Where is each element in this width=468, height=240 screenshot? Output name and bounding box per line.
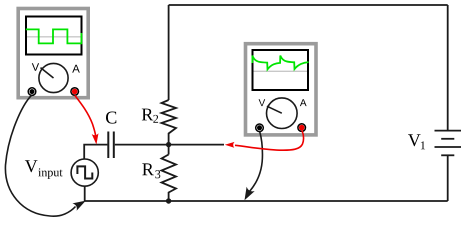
meter M1 label V (32, 63, 39, 71)
meter M2 screen (253, 50, 309, 90)
meter M1 dial (39, 63, 68, 92)
wire mid right (capacitor to node to probe point) (115, 144, 224, 146)
source Vinput circle (71, 159, 98, 186)
arrowhead M1 black (72, 201, 85, 211)
wire right battery top lead (447, 5, 449, 131)
meter M2 red jack (298, 124, 306, 132)
probe lead M2 black to bottom wire (250, 132, 263, 192)
arrowhead M2 black (245, 187, 255, 201)
capacitor C (107, 132, 109, 159)
wire right battery bottom lead (447, 155, 449, 201)
wire bottom from Vinput to battery (85, 200, 448, 202)
meter M1 screen (26, 17, 82, 55)
resistor R3 (162, 155, 177, 202)
meter M2 screen centerline (254, 70, 308, 72)
meter M2 frame (246, 44, 317, 135)
meter M1 black jack (28, 88, 36, 96)
meter M2 dial (267, 98, 298, 129)
wire Vinput bottom stub (84, 186, 86, 201)
resistor R2 (162, 100, 177, 145)
label R3 (142, 163, 154, 175)
label C (106, 112, 116, 124)
wire mid left (Vinput corner to capacitor) (84, 145, 107, 159)
label V1 (408, 134, 421, 146)
meter M1 label A (72, 65, 80, 73)
meter M2 black jack (256, 124, 264, 132)
probe lead M2 red to mid wire node (235, 131, 304, 151)
meter M1 screen centerline (27, 36, 81, 38)
meter M1 red jack (71, 88, 79, 96)
probe lead M1 red to capacitor input (75, 95, 96, 136)
arrowhead M2 red (225, 142, 235, 148)
wire top from R2 top to battery top (169, 4, 448, 6)
label Vinput (25, 160, 38, 172)
meter M2 differentiated waveform (252, 56, 308, 70)
meter M2 label A (300, 99, 307, 106)
probe lead M1 black to bottom junction (5, 95, 75, 216)
meter M1 square waveform (26, 29, 82, 43)
battery V1 (435, 130, 462, 132)
node mid (R2/R3/C junction) (166, 142, 171, 147)
source Vinput square-wave glyph (77, 166, 92, 178)
meter M1 frame (18, 9, 88, 98)
arrowhead M1 red (92, 133, 99, 144)
wire R3 top lead (168, 145, 170, 155)
meter M2 needle (267, 106, 282, 113)
label R2 (142, 109, 154, 121)
meter M1 needle (41, 68, 54, 78)
node bottom (R3/bottom wire junction) (166, 198, 171, 203)
meter M2 label V (259, 99, 266, 106)
wire R2 top lead (168, 5, 170, 100)
